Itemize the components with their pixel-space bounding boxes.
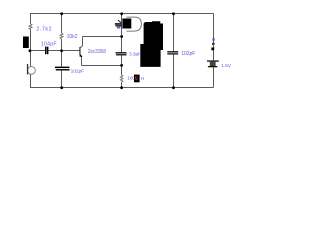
svg-text:2sc3358: 2sc3358: [88, 49, 107, 55]
svg-text:10k2: 10k2: [67, 34, 78, 40]
svg-text:102pF: 102pF: [181, 51, 195, 57]
svg-text:2.7k2: 2.7k2: [36, 26, 52, 32]
svg-text:104pF: 104pF: [41, 42, 57, 48]
svg-text:1.5V: 1.5V: [221, 63, 232, 69]
svg-text:3.3pF: 3.3pF: [129, 52, 141, 58]
svg-text:102pF: 102pF: [71, 68, 85, 74]
svg-text:H: H: [141, 76, 144, 81]
